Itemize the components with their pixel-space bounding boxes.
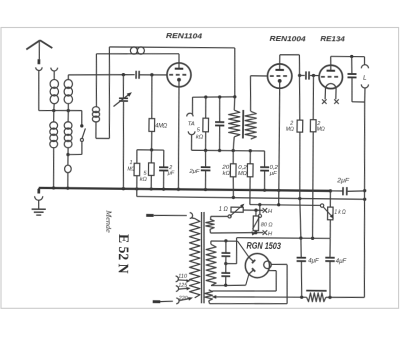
heater mark xH top — [263, 208, 268, 213]
node supply anode feed — [298, 197, 301, 200]
wire switch to L4 bottom — [81, 141, 83, 154]
node screen C5 — [218, 95, 221, 98]
svg-text:80 Ω: 80 Ω — [261, 222, 273, 228]
node bus C7 2uF — [204, 188, 207, 191]
node antenna tap A2 — [67, 109, 70, 112]
node right column bus cap — [363, 189, 366, 192]
resistor R10 2M grid leak V3 — [312, 75, 315, 119]
wire L2 to tap rail — [67, 103, 69, 111]
resistor R7 0.2M — [249, 151, 251, 164]
wire cathode return line — [250, 204, 321, 205]
heater mark x1 — [322, 99, 327, 104]
mains socket 1 — [190, 213, 193, 219]
wire to wave switch — [81, 111, 83, 126]
antenna plug pin — [38, 59, 41, 64]
speaker jack lower — [361, 84, 368, 88]
coil L4 — [67, 111, 69, 123]
wire tuning cap to bus — [122, 102, 124, 189]
resistor R8 20k — [232, 151, 234, 164]
node B+ filter 1 — [299, 236, 302, 239]
speaker jack upper — [361, 65, 368, 69]
pot P1 hinge — [228, 215, 231, 218]
svg-text:1: 1 — [129, 160, 132, 166]
wire L5 to ground bus — [67, 172, 69, 188]
wire B+ line right — [326, 296, 365, 299]
wire feedback branch down — [96, 54, 97, 107]
tube V1 REN1104 — [167, 63, 191, 87]
tube V4 RGN1503 — [245, 253, 270, 278]
svg-text:2μF: 2μF — [336, 177, 350, 184]
capacitor C2 grid — [135, 71, 137, 79]
switch S1 blade — [82, 128, 85, 138]
wire anode2 diagonal — [246, 274, 249, 285]
choke L7 — [130, 47, 137, 54]
node AF R7 top — [249, 149, 252, 152]
wire anode1 diagonal — [237, 241, 248, 256]
pot P3 1k feedback — [329, 191, 331, 207]
capacitor C11 output — [350, 56, 353, 73]
svg-text:4μF: 4μF — [308, 258, 319, 264]
node anode output cap — [350, 55, 353, 58]
wire heater line bottom — [211, 232, 264, 234]
wire plug1 to primary — [154, 214, 187, 217]
resistor R2 1M — [136, 150, 138, 164]
capacitor C13 4uF — [300, 238, 303, 257]
wire HT rail — [109, 46, 234, 48]
svg-text:Mende: Mende — [104, 209, 112, 233]
wire L1 to tap rail — [53, 103, 55, 111]
wire bias network rail — [137, 149, 164, 151]
antenna socket — [36, 67, 42, 70]
wire L6 to HT rail riser — [95, 121, 97, 138]
wire V3 anode line — [330, 56, 332, 65]
node bus C4 2uF — [162, 188, 165, 191]
wire V4 filament lead 2 — [268, 269, 276, 271]
wire plug2 to socket — [160, 300, 173, 303]
resistor R5 anode zigzag — [233, 97, 236, 110]
winding W2 heater — [206, 219, 215, 229]
capacitor C14 4uF — [329, 238, 331, 257]
node V2 cathode return — [277, 203, 280, 206]
wire filter minus line — [237, 237, 331, 239]
wire R10 down to filter line — [312, 132, 314, 239]
resistor R11 divider — [307, 293, 326, 302]
node hum pot tap — [258, 203, 261, 206]
wire right column — [362, 102, 367, 297]
svg-text:MΩ: MΩ — [286, 127, 294, 133]
antenna — [26, 40, 40, 50]
switch S1 hinge — [80, 138, 83, 141]
svg-text:MΩ: MΩ — [317, 126, 325, 132]
coil L1 — [50, 79, 59, 88]
earth socket — [35, 196, 43, 200]
svg-text:2μF: 2μF — [188, 169, 200, 175]
node heater bottom 80ohm — [254, 231, 257, 234]
wire antenna lead — [38, 40, 40, 59]
wire V1 cathode to bus — [178, 87, 180, 189]
svg-text:MΩ: MΩ — [127, 167, 135, 173]
node switch top — [80, 124, 83, 127]
svg-text:REN1104: REN1104 — [166, 31, 202, 40]
P3 wiper contact — [320, 204, 323, 207]
wire hum wiper drop — [259, 205, 261, 215]
mains socket 220 — [176, 298, 179, 304]
wire choke to V1 anode — [178, 54, 180, 63]
pot P2 80 ohm body — [255, 210, 257, 216]
capacitor C8 HT bypass upper — [225, 241, 227, 253]
node V3 grid — [312, 74, 315, 77]
heater mark x2 — [334, 99, 339, 104]
capacitor C4 2uF — [163, 150, 165, 166]
coil L5 coupling loop — [67, 155, 69, 166]
wire C11 to speaker return — [352, 101, 365, 103]
wire grid line from coil L2 — [67, 75, 69, 80]
mains plug pin 1 — [146, 214, 153, 217]
node V2 grid-cap tap — [298, 74, 301, 77]
node HT cap bottom — [224, 284, 227, 287]
wire W2 to heater line — [209, 229, 212, 233]
svg-text:kΩ: kΩ — [140, 177, 148, 183]
capacitor C12 2uF to bus — [330, 190, 342, 192]
node bias center — [150, 148, 153, 151]
svg-text:L: L — [363, 74, 367, 81]
wire chassis bus — [39, 187, 331, 192]
W4 center tap arrow — [212, 295, 217, 299]
svg-text:1 k Ω: 1 k Ω — [334, 210, 346, 216]
wire antenna to tap rail — [38, 70, 39, 110]
wire B+ line — [216, 296, 307, 298]
winding W4 rectifier filament — [205, 290, 213, 301]
coil L6 feedback — [92, 107, 99, 113]
wire supply line B — [136, 189, 138, 197]
node grid tuning tap — [122, 73, 125, 76]
node screen R4 — [204, 95, 207, 98]
node bus R2 1M — [135, 187, 138, 190]
wire V2 cathode — [278, 88, 280, 204]
wire R8 to supply line — [232, 177, 235, 198]
svg-text:REN1004: REN1004 — [269, 34, 305, 43]
wire anode choke line — [96, 53, 179, 55]
wire bus to earth pin — [38, 188, 40, 192]
wire grid line V1 — [68, 74, 134, 76]
node screen rail HT — [233, 95, 236, 98]
svg-text:μF: μF — [269, 171, 278, 177]
ground — [32, 208, 46, 210]
coupling unit plate bar — [242, 110, 244, 139]
svg-text:kΩ: kΩ — [196, 134, 204, 140]
spare antenna socket — [51, 68, 58, 72]
resistor R9 2M anode — [297, 120, 303, 132]
tube V2 REN1004 — [267, 64, 292, 89]
pot P2 wiper contact — [258, 214, 261, 217]
node AF R5 bottom — [232, 149, 235, 152]
svg-text:E 52 N: E 52 N — [115, 234, 132, 274]
wire R9 to supply — [299, 132, 301, 198]
svg-text:μF: μF — [167, 170, 175, 176]
svg-text:TA: TA — [188, 121, 195, 127]
svg-text:1 Ω: 1 Ω — [219, 207, 228, 213]
node AF C5 — [218, 149, 221, 152]
wire AF rail — [192, 150, 265, 151]
wire socket to coil L1 — [53, 71, 55, 80]
wire P1 to heater winding — [211, 215, 228, 217]
winding W3 HT — [210, 241, 212, 244]
wire anode feed column — [299, 55, 301, 120]
svg-text:220: 220 — [178, 296, 188, 302]
wire primary bottom tap 220 — [179, 298, 190, 301]
wire R6 to V2 grid — [251, 75, 268, 77]
svg-text:MΩ: MΩ — [238, 171, 248, 177]
node B+ C14 — [328, 296, 331, 299]
wire HT rail drop — [234, 48, 235, 97]
wire heater line top — [243, 209, 263, 211]
wire V3 filament legs — [324, 88, 326, 99]
capacitor C1 tuning variable — [119, 97, 128, 99]
rheostat P1 1 ohm — [231, 207, 243, 212]
node bus L3 — [52, 186, 55, 189]
node bus R3 5k — [150, 187, 153, 190]
wire L3 to ground bus — [52, 147, 55, 188]
P3 wiper arrow — [323, 207, 332, 217]
resistor R1 4M grid leak — [151, 75, 152, 119]
TA jack upper contact — [187, 113, 193, 116]
tap 110 — [176, 276, 179, 282]
svg-text:125: 125 — [178, 283, 187, 289]
wire W3 bottom to anode2 — [211, 285, 246, 286]
svg-text:4μF: 4μF — [336, 259, 347, 265]
resistor R3 5k — [150, 150, 152, 163]
node AF R4 — [204, 149, 207, 152]
capacitor C6 coupling to V3 — [300, 74, 305, 76]
TA jack lower contact — [188, 131, 195, 135]
winding W1 primary — [191, 217, 194, 220]
node supply right end — [363, 198, 366, 201]
node heater 80ohm — [254, 209, 257, 212]
V4 anode 1 — [249, 257, 254, 262]
wire V2 anode loop — [279, 55, 281, 64]
wire TA jack stem — [191, 97, 193, 114]
tube V3 RE134 — [319, 65, 343, 89]
node bus V1 cathode — [177, 188, 180, 191]
earth plug pin — [37, 189, 40, 194]
node B+ C13 — [300, 296, 303, 299]
wire HT mid to filter line — [226, 263, 237, 265]
node grid leak tap — [150, 73, 153, 76]
transformer core — [200, 212, 202, 303]
node bus V2 cathode — [277, 189, 280, 192]
capacitor C7 2uF — [204, 150, 206, 166]
pot P2 wiper arrow — [253, 216, 260, 229]
node antenna tap A1 — [52, 109, 55, 112]
resistor R6 grid zigzag — [250, 76, 251, 111]
wire socket to earth — [38, 200, 40, 209]
V4 filament loop — [264, 261, 272, 269]
svg-text:kΩ: kΩ — [223, 171, 231, 177]
capacitor C9 HT bypass lower — [225, 264, 227, 273]
heater mark xH bottom — [263, 230, 268, 235]
tap 125 — [176, 286, 179, 292]
svg-text:RGN 1503: RGN 1503 — [246, 241, 281, 251]
node bus tuning cap — [122, 187, 125, 190]
wire V4 filament lead 1 — [271, 263, 287, 265]
coil L2 — [64, 79, 73, 88]
wire R7 to cathode net — [249, 177, 252, 205]
node switch return — [66, 153, 69, 156]
node bus output cap — [329, 189, 332, 192]
wire screen rail — [192, 96, 234, 98]
node bus C10 0.2uF — [263, 189, 266, 192]
node filter R10 — [311, 237, 314, 240]
svg-text:RE134: RE134 — [320, 34, 345, 43]
capacitor C5 — [218, 97, 221, 121]
mains plug pin 2 — [153, 300, 161, 303]
resistor R4 5k — [205, 97, 207, 118]
wire to speaker — [363, 57, 365, 65]
node HT cap mid — [224, 262, 227, 265]
V4 anode 2 — [249, 270, 254, 275]
wire L4 down — [67, 147, 69, 154]
node bus L5 — [66, 187, 69, 190]
node HT cap top — [224, 239, 227, 242]
node supply R8 — [232, 196, 235, 199]
wire TA to AF rail — [190, 135, 192, 151]
capacitor C10 0.2uF — [263, 151, 265, 166]
coil L3 — [53, 111, 55, 123]
wire speaker return — [364, 88, 366, 102]
svg-text:4MΩ: 4MΩ — [155, 122, 167, 129]
svg-text:110: 110 — [178, 274, 187, 280]
wire tuning cap branch — [122, 75, 125, 98]
